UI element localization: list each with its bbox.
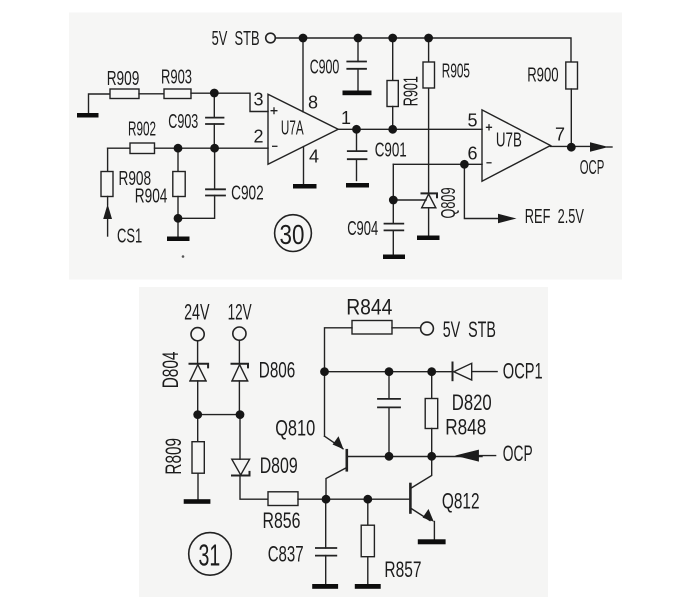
svg-text:R848: R848 <box>445 416 486 441</box>
svg-text:R902: R902 <box>128 118 156 140</box>
svg-text:C900: C900 <box>310 55 340 78</box>
svg-text:Q809: Q809 <box>437 188 460 219</box>
svg-text:6: 6 <box>468 144 478 164</box>
svg-text:OCP: OCP <box>503 441 533 466</box>
svg-text:R905: R905 <box>442 60 470 82</box>
svg-text:4: 4 <box>309 147 319 167</box>
svg-text:R856: R856 <box>263 510 301 534</box>
svg-text:R809: R809 <box>162 438 186 475</box>
svg-text:R901: R901 <box>400 76 423 106</box>
svg-text:U7B: U7B <box>496 129 522 151</box>
svg-text:C904: C904 <box>347 217 378 240</box>
svg-text:2: 2 <box>254 127 264 147</box>
svg-text:30: 30 <box>280 220 305 251</box>
svg-text:C901: C901 <box>375 139 407 161</box>
svg-text:5V STB: 5V STB <box>212 27 260 50</box>
svg-text:R900: R900 <box>527 64 558 86</box>
svg-text:C837: C837 <box>268 542 304 567</box>
svg-text:D809: D809 <box>260 455 298 479</box>
svg-text:7: 7 <box>555 125 565 145</box>
svg-text:C902: C902 <box>231 182 264 204</box>
svg-text:D804: D804 <box>159 352 183 389</box>
svg-text:24V: 24V <box>184 299 210 324</box>
svg-text:CS1: CS1 <box>117 225 142 248</box>
svg-text:R857: R857 <box>384 559 421 583</box>
svg-text:OCP1: OCP1 <box>503 358 543 383</box>
svg-text:D820: D820 <box>452 391 492 416</box>
svg-text:12V: 12V <box>228 299 253 324</box>
svg-text:OCP: OCP <box>580 157 605 179</box>
svg-text:5: 5 <box>468 111 478 131</box>
svg-text:8: 8 <box>308 93 318 113</box>
svg-text:1: 1 <box>341 108 351 128</box>
svg-text:5V STB: 5V STB <box>443 317 496 342</box>
svg-text:REF 2.5V: REF 2.5V <box>525 205 585 228</box>
svg-text:Q810: Q810 <box>275 416 315 441</box>
svg-text:U7A: U7A <box>281 117 304 139</box>
svg-text:D806: D806 <box>259 359 295 383</box>
svg-text:R844: R844 <box>346 295 392 319</box>
svg-text:R904: R904 <box>135 185 168 207</box>
svg-text:R903: R903 <box>161 66 192 89</box>
svg-text:C903: C903 <box>168 110 198 133</box>
svg-text:R909: R909 <box>107 67 140 89</box>
svg-text:Q812: Q812 <box>442 490 480 514</box>
svg-text:3: 3 <box>254 90 264 110</box>
svg-text:31: 31 <box>199 539 221 573</box>
